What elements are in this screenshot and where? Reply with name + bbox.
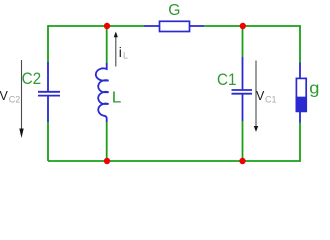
svg-text:g: g — [309, 79, 319, 98]
svg-text:L: L — [123, 51, 128, 61]
wire C1 branch upper — [242, 26, 244, 57]
svg-text:C2: C2 — [9, 95, 21, 105]
resistor G leads — [144, 25, 204, 27]
wire C1 branch lower — [242, 121, 244, 161]
node bottom right (junction) — [239, 158, 245, 164]
resistor G body — [160, 21, 190, 31]
conductance g fill — [296, 98, 306, 112]
voltage arrow V_C2 — [19, 60, 23, 138]
voltage arrow V_C1 — [254, 61, 258, 133]
inductor L coil — [96, 63, 109, 122]
conductance g leads — [299, 63, 301, 123]
node bottom left (junction) — [104, 158, 110, 164]
wire top left segment — [48, 25, 144, 27]
wire right branch lower — [299, 123, 301, 162]
wire inductor branch upper — [106, 26, 108, 63]
svg-text:C1: C1 — [217, 71, 236, 89]
capacitor C2 plates — [38, 92, 60, 96]
wire right branch upper — [299, 25, 301, 62]
wire bottom — [48, 160, 300, 162]
capacitor C1 plates — [232, 90, 253, 94]
wire left branch lower — [47, 122, 49, 161]
capacitor C1 leads — [242, 57, 244, 121]
svg-text:C1: C1 — [265, 94, 277, 104]
current arrow i_L — [114, 32, 118, 67]
capacitor C2 leads — [47, 62, 49, 122]
svg-text:V: V — [256, 89, 265, 103]
svg-text:C2: C2 — [22, 70, 42, 88]
svg-text:L: L — [112, 89, 122, 106]
wire left branch upper — [47, 25, 49, 62]
wire top right segment — [204, 25, 300, 27]
svg-text:V: V — [0, 89, 9, 103]
conductance g body — [296, 78, 306, 111]
svg-text:i: i — [119, 44, 122, 60]
node top left (junction) — [104, 23, 110, 29]
node top right (junction) — [240, 23, 246, 29]
wire inductor branch lower — [106, 122, 108, 161]
svg-text:G: G — [168, 2, 180, 19]
